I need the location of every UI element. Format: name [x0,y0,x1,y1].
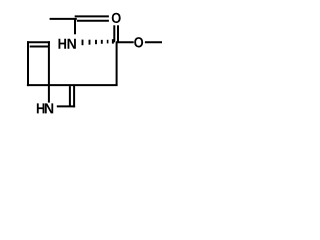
chemical structure drawing [0,0,190,128]
wire ester C=O left line [113,25,115,42]
hashed wedge bond N to stereocenter [82,39,114,45]
label HN upper H [59,39,67,49]
wire pyrrole C=C outer line [73,85,75,108]
wire acetyl C=O upper line [75,15,109,17]
label O acetyl [112,13,121,23]
wire ring1 right vertical down to pyrrole N [48,41,50,102]
wire acetyl C to N bond [74,19,76,35]
wire ester C down to CH2 [116,42,118,85]
wire pyrrole N to C bond [57,105,75,107]
wire O to methyl bond [145,41,162,43]
wire ester C to O bond [116,41,134,43]
wire ring1 top edge [27,41,50,43]
wire ring1 inner double bond line [30,46,48,48]
label HN lower N [45,103,53,113]
label O ester [134,37,143,47]
label HN upper N [68,39,76,49]
wire methyl-C bond (acetyl CH3) [50,18,77,20]
wire ring1 left vertical [27,41,29,86]
wire pyrrole C=C inner line [69,86,71,105]
wire ester C=O right line [117,25,119,42]
label HN lower H [37,103,45,113]
wire acetyl C=O lower line [77,20,109,22]
wire long bottom edge [27,84,118,86]
